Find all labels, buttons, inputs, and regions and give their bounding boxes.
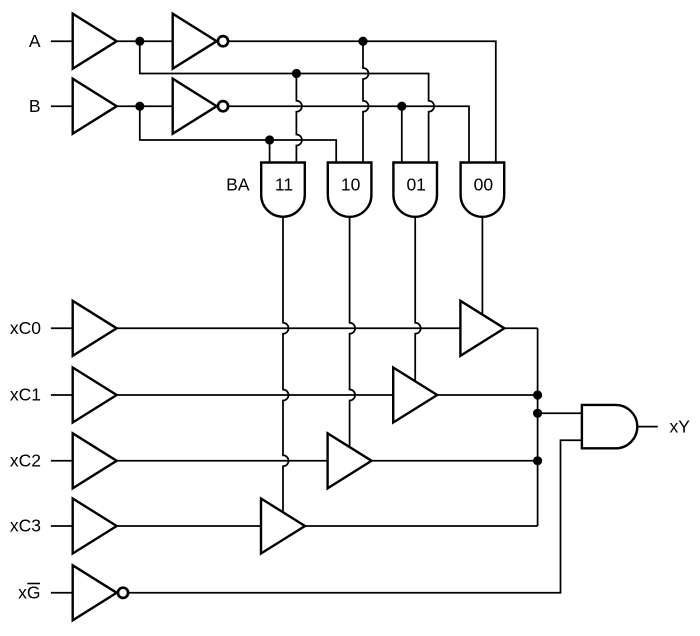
overbar on G of xG <box>27 583 40 585</box>
node bus AND-input junction <box>533 409 542 418</box>
wire inverted-xG to output AND gate bottom input <box>129 440 582 593</box>
svg-text:xY: xY <box>670 416 691 436</box>
wire B buffer to inverter <box>117 105 173 107</box>
select buffer for xC1 <box>393 368 437 423</box>
and-gate 00 decode <box>461 163 505 217</box>
svg-text:xC1: xC1 <box>10 385 41 405</box>
buffer A (U1) <box>73 14 117 69</box>
buffer B (U3) <box>73 79 117 134</box>
svg-text:xC2: xC2 <box>10 450 41 470</box>
wire xC2 buffer to select buffer <box>117 460 328 462</box>
svg-text:xG: xG <box>18 582 40 602</box>
wire xC0 buffer to select buffer <box>117 327 461 329</box>
wire xC0 input <box>51 327 73 329</box>
svg-text:11: 11 <box>275 174 293 194</box>
svg-text:BA: BA <box>226 174 250 194</box>
svg-text:B: B <box>29 96 41 116</box>
inverter B (U4) <box>173 79 217 134</box>
node bus xC2 junction <box>533 456 542 465</box>
wire AND-10 output column to xC2 buffer <box>350 216 356 448</box>
node inverted-A / AND-10 junction <box>358 37 367 46</box>
select buffer for xC0 <box>460 301 504 356</box>
buffer xC0 input <box>73 301 117 356</box>
wire AND-00 output column to xC0 buffer <box>481 216 483 316</box>
and-gate 10 decode <box>328 163 372 217</box>
wire xC2 select buffer output to bus <box>372 460 538 462</box>
wire xC2 input <box>51 460 73 462</box>
wire buffered-B tap to AND-11 left input <box>269 140 271 163</box>
wire bus tap to output AND gate top input <box>538 412 582 414</box>
wire buffered-B net to AND-10 left input <box>140 106 336 163</box>
wire xC0 select buffer output to bus <box>504 327 537 329</box>
node inverted-B / AND-01 junction <box>397 102 406 111</box>
wire xC3 buffer to select buffer <box>117 525 261 527</box>
svg-text:xC0: xC0 <box>10 318 41 338</box>
node B buffered junction <box>135 102 144 111</box>
wire output bus <box>537 328 539 526</box>
inverter xG bubble <box>118 588 128 598</box>
wire xC1 buffer to select buffer <box>117 394 394 396</box>
select buffer for xC3 <box>261 499 305 554</box>
node buffered-A / AND-11 junction <box>292 69 301 78</box>
wire AND-01 output column to xC1 buffer <box>415 216 421 383</box>
wire xC1 select buffer output to bus <box>437 394 537 396</box>
wire B input <box>51 105 73 107</box>
and-gate 11 decode <box>261 163 305 217</box>
select buffer for xC2 <box>328 433 372 488</box>
svg-text:A: A <box>29 31 41 51</box>
wire output AND gate to xY <box>637 426 658 428</box>
wire A input <box>51 40 73 42</box>
inverter A bubble <box>218 36 228 46</box>
wire buffered-A net to AND-01 right input <box>140 41 434 163</box>
wire inverted-B tap to AND-01 left input <box>401 106 403 163</box>
inverter B bubble <box>218 101 228 111</box>
wire inverted-A tap to AND-10 right input <box>363 41 369 163</box>
svg-text:01: 01 <box>406 174 425 194</box>
node buffered-B / AND-11 junction <box>265 135 274 144</box>
wire inverted-A net to AND-00 right input <box>229 41 496 163</box>
wire xC3 select buffer output to bus <box>305 525 538 527</box>
wire xC3 input <box>51 525 73 527</box>
svg-text:xC3: xC3 <box>10 516 41 536</box>
wire xC1 input <box>51 394 73 396</box>
inverter A (U2) <box>173 14 217 69</box>
svg-text:00: 00 <box>474 174 494 194</box>
wire A buffer to inverter <box>117 40 173 42</box>
wire xG input <box>51 592 73 594</box>
and-gate 01 decode <box>393 163 437 217</box>
node A buffered junction <box>135 37 144 46</box>
buffer xC2 input <box>73 433 117 488</box>
wire buffered-A tap to AND-11 right input <box>296 74 302 164</box>
wire AND-11 output column to xC3 buffer <box>283 216 289 514</box>
svg-text:10: 10 <box>341 174 361 194</box>
wire inverted-B net to AND-00 left input <box>229 106 470 163</box>
buffer xC1 input <box>73 368 117 423</box>
buffer xC3 input <box>73 499 117 554</box>
node bus xC1 junction <box>533 390 542 399</box>
inverter xG <box>73 565 117 620</box>
output and-gate xY <box>582 405 637 448</box>
